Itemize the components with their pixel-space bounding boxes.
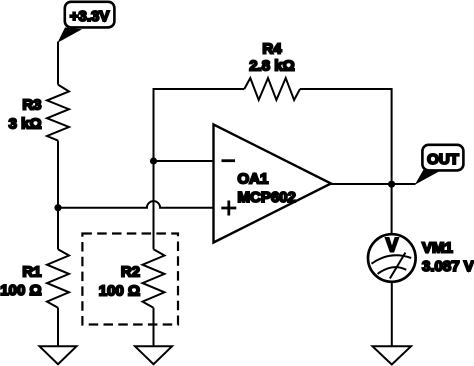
svg-text:3 kΩ: 3 kΩ (9, 116, 42, 133)
ground under voltmeter (373, 346, 412, 364)
svg-text:+3.3V: +3.3V (70, 8, 110, 25)
op-amp plus input symbol (221, 201, 236, 216)
wire R4 left lead and corner down to minus node (154, 89, 245, 161)
op-amp minus input symbol (222, 159, 236, 162)
wire voltmeter bottom to ground (391, 282, 393, 347)
svg-text:100 Ω: 100 Ω (0, 282, 41, 299)
value label R1 100 Ohm (0, 264, 41, 300)
wire minus node down to R2 (153, 161, 155, 249)
wire node A down to R1 (57, 208, 59, 250)
wire from +3.3V flag to R3 top (57, 42, 59, 85)
voltmeter VM1 (368, 234, 416, 282)
svg-text:R3: R3 (22, 97, 41, 114)
svg-text:V: V (386, 235, 399, 256)
wire R3 bottom to node A (57, 141, 59, 208)
net flag +3.3V (58, 2, 115, 43)
node output junction dot (388, 181, 395, 188)
label OA1 MCP602 (238, 171, 296, 207)
svg-text:2.8 kΩ: 2.8 kΩ (249, 58, 294, 75)
resistor R4 (244, 78, 300, 100)
ground under R1 (40, 346, 77, 364)
value label R2 100 Ohm (99, 264, 140, 300)
resistor R1 (47, 249, 69, 307)
svg-text:R2: R2 (121, 264, 140, 281)
wire R1 bottom to ground (57, 308, 59, 347)
value label R4 2.8 kOhm (249, 41, 294, 75)
svg-text:R1: R1 (22, 264, 41, 281)
label VM1 3.087 V (422, 240, 474, 276)
svg-text:VM1: VM1 (422, 240, 453, 257)
op-amp U1 triangle (214, 125, 332, 243)
wire R2 bottom to ground (153, 308, 155, 347)
svg-text:100 Ω: 100 Ω (99, 283, 140, 300)
net flag OUT (415, 145, 464, 185)
ground under R2 (135, 346, 172, 364)
dashed highlight box around R2 (82, 234, 178, 325)
node minus junction dot (150, 157, 157, 164)
node A junction dot (54, 204, 61, 211)
wire R4 right lead to output corner and down to voltmeter (300, 89, 392, 234)
value label R3 3 kOhm (9, 97, 42, 133)
wire op-amp output to OUT flag (331, 183, 416, 185)
svg-text:OUT: OUT (427, 151, 459, 168)
resistor R3 (47, 85, 69, 141)
wire node A to op-amp + input with hop over R2 wire (58, 201, 214, 208)
svg-text:R4: R4 (262, 41, 282, 58)
svg-text:OA1: OA1 (238, 171, 269, 188)
svg-text:3.087 V: 3.087 V (422, 258, 474, 275)
svg-text:MCP602: MCP602 (238, 189, 296, 206)
resistor R2 (143, 249, 165, 307)
wire minus node to op-amp - input (154, 160, 214, 162)
